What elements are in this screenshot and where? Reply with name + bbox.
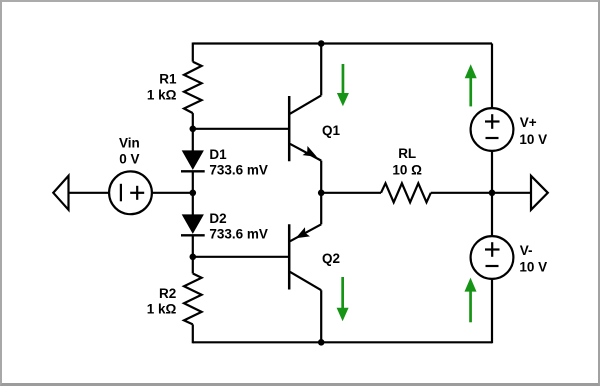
wire Q1 base bbox=[193, 128, 289, 130]
label Q2 bbox=[322, 251, 340, 266]
diode D1 bbox=[181, 129, 205, 193]
current arrow V+ branch (up) bbox=[465, 64, 477, 106]
label RL bbox=[398, 146, 416, 161]
wire input port to Vin bbox=[69, 192, 110, 194]
voltage source V+ bbox=[471, 108, 514, 151]
wire V- to bottom rail bbox=[491, 279, 493, 343]
wire output node to RL bbox=[321, 192, 381, 194]
label Vin value 0 V bbox=[119, 151, 139, 166]
wire supply node to V- bbox=[491, 193, 493, 236]
wire bottom rail bbox=[193, 341, 492, 343]
output port bbox=[531, 176, 548, 210]
wire V+ to supply node bbox=[491, 151, 493, 193]
svg-text:1 kΩ: 1 kΩ bbox=[147, 87, 177, 102]
label Q1 bbox=[322, 123, 341, 138]
transistor Q2 bbox=[289, 224, 321, 290]
current arrow Q1 collector (down) bbox=[337, 64, 349, 106]
wire Q2 collector bbox=[320, 290, 322, 342]
label V+ value 10 V bbox=[519, 132, 547, 147]
voltage source V- bbox=[471, 236, 514, 279]
wire RL to supply node bbox=[431, 192, 492, 194]
label V- value 10 V bbox=[519, 260, 547, 275]
junction supply mid node bbox=[489, 190, 496, 197]
svg-text:10 V: 10 V bbox=[519, 132, 547, 147]
svg-text:R2: R2 bbox=[159, 286, 176, 301]
svg-text:V-: V- bbox=[520, 243, 533, 258]
wire top rail to V+ bbox=[491, 44, 493, 109]
label D1 bbox=[209, 147, 227, 162]
svg-text:0 V: 0 V bbox=[119, 151, 139, 166]
resistor R2 bbox=[184, 257, 202, 344]
node Q1 base junction (R1/D1) bbox=[190, 126, 197, 133]
svg-text:1 kΩ: 1 kΩ bbox=[147, 302, 177, 317]
svg-text:R1: R1 bbox=[159, 72, 177, 87]
svg-text:RL: RL bbox=[398, 146, 416, 161]
resistor RL bbox=[381, 183, 431, 202]
current arrow V- branch (up) bbox=[465, 278, 477, 323]
label V+ bbox=[520, 115, 537, 130]
label D2 voltage 733.6 mV bbox=[209, 226, 268, 241]
label V- bbox=[520, 243, 533, 258]
svg-text:733.6 mV: 733.6 mV bbox=[209, 162, 268, 177]
label RL value 10 Ohm bbox=[392, 162, 422, 177]
node Q2 base junction (D2/R2) bbox=[190, 253, 197, 260]
node Vin junction bbox=[190, 190, 197, 197]
label R1 bbox=[159, 72, 177, 87]
svg-text:10 V: 10 V bbox=[519, 260, 547, 275]
wire Q1 collector bbox=[320, 44, 322, 96]
svg-text:D1: D1 bbox=[209, 147, 227, 162]
wire top rail bbox=[193, 42, 492, 44]
svg-text:10 Ω: 10 Ω bbox=[392, 162, 422, 177]
svg-text:V+: V+ bbox=[520, 115, 537, 130]
wire Q1 emitter bbox=[320, 161, 322, 193]
svg-text:Vin: Vin bbox=[119, 136, 140, 151]
junction top rail / Q1 collector bbox=[318, 40, 325, 47]
voltage source Vin bbox=[109, 171, 152, 214]
input port bbox=[53, 176, 68, 210]
svg-text:733.6 mV: 733.6 mV bbox=[209, 226, 268, 241]
wire Q2 emitter bbox=[320, 193, 322, 225]
label R2 value 1 kOhm bbox=[147, 302, 177, 317]
svg-text:Q1: Q1 bbox=[322, 123, 341, 138]
svg-text:D2: D2 bbox=[209, 211, 226, 226]
transistor Q1 bbox=[289, 95, 321, 161]
label D2 bbox=[209, 211, 226, 226]
diode D2 bbox=[181, 193, 205, 257]
resistor R1 bbox=[184, 43, 202, 129]
wire supply node to output port bbox=[492, 192, 531, 194]
label Vin bbox=[119, 136, 140, 151]
junction bottom rail / Q2 collector bbox=[318, 339, 325, 346]
junction output node (emitters) bbox=[318, 190, 325, 197]
label D1 voltage 733.6 mV bbox=[209, 162, 268, 177]
label R1 value 1 kOhm bbox=[147, 87, 177, 102]
wire Q2 base bbox=[193, 256, 289, 258]
wire Vin to node bbox=[152, 192, 193, 194]
current arrow Q2 collector (down) bbox=[337, 277, 349, 321]
label R2 bbox=[159, 286, 176, 301]
svg-text:Q2: Q2 bbox=[322, 251, 340, 266]
